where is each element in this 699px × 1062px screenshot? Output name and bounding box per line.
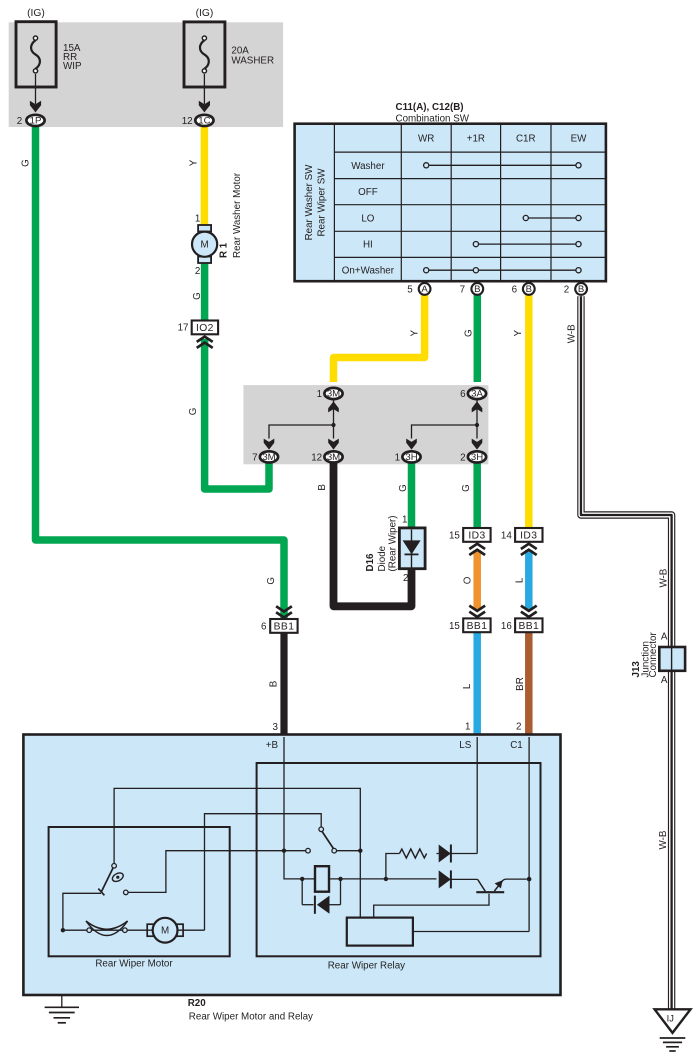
svg-text:1: 1 [195,213,200,224]
svg-text:ID3: ID3 [520,531,537,542]
svg-text:+B: +B [266,740,279,751]
svg-text:C1: C1 [510,740,523,751]
svg-text:WR: WR [418,134,434,145]
svg-text:3H: 3H [405,452,417,463]
svg-text:12: 12 [311,452,322,463]
svg-text:A: A [421,284,428,295]
svg-text:Y: Y [513,329,524,336]
svg-text:3: 3 [272,722,278,733]
svg-text:L: L [462,683,473,689]
svg-text:6: 6 [512,284,518,295]
svg-text:Rear Wiper SW: Rear Wiper SW [317,168,328,237]
svg-text:1: 1 [465,722,470,733]
svg-text:Washer: Washer [351,161,385,172]
svg-text:(IG): (IG) [27,8,45,19]
svg-text:M: M [201,240,209,251]
svg-text:On+Washer: On+Washer [342,266,395,277]
svg-text:W-B: W-B [659,568,670,587]
svg-text:EW: EW [571,134,588,145]
svg-text:BR: BR [515,677,526,691]
svg-text:B: B [578,284,584,295]
svg-text:C1R: C1R [516,134,536,145]
svg-text:Y: Y [410,329,421,336]
svg-text:3A: 3A [471,389,483,400]
svg-text:(Rear Wiper): (Rear Wiper) [388,515,399,571]
svg-text:R 1: R 1 [218,242,229,258]
svg-text:G: G [188,408,199,416]
svg-text:16: 16 [501,621,512,632]
svg-text:(IG): (IG) [196,8,214,19]
svg-text:W-B: W-B [658,830,669,849]
svg-text:2: 2 [17,116,22,127]
svg-text:HI: HI [363,240,373,251]
svg-text:2: 2 [564,284,569,295]
svg-text:6: 6 [261,622,267,633]
svg-text:ID3: ID3 [468,531,485,542]
svg-text:O: O [462,576,473,584]
svg-text:3H: 3H [471,452,483,463]
svg-text:A: A [661,675,668,686]
svg-text:6: 6 [460,389,466,400]
svg-text:Rear Washer SW: Rear Washer SW [304,164,315,241]
svg-text:B: B [269,680,280,687]
svg-text:14: 14 [501,531,512,542]
svg-text:2: 2 [516,722,521,733]
svg-text:WIP: WIP [63,61,82,72]
svg-text:+1R: +1R [467,134,485,145]
svg-text:B: B [474,284,480,295]
svg-text:IO2: IO2 [196,323,214,334]
svg-text:Y: Y [189,159,200,166]
svg-text:R20: R20 [188,998,207,1009]
svg-text:A: A [661,631,668,642]
svg-text:B: B [317,484,328,491]
svg-text:Rear Wiper Motor and Relay: Rear Wiper Motor and Relay [189,1011,313,1022]
svg-text:G: G [20,159,31,167]
svg-text:G: G [461,484,472,492]
svg-text:OFF: OFF [358,187,378,198]
svg-text:Combination SW: Combination SW [396,113,470,124]
svg-text:BB1: BB1 [274,622,295,633]
svg-text:L: L [515,577,526,583]
svg-text:2: 2 [403,573,408,584]
svg-text:2: 2 [195,266,200,277]
svg-text:G: G [192,292,203,300]
svg-text:15: 15 [449,621,460,632]
svg-text:IJ: IJ [667,1014,674,1024]
svg-text:J13: J13 [631,661,642,678]
svg-text:D16: D16 [365,553,376,572]
svg-text:3M: 3M [327,452,340,463]
svg-text:LO: LO [361,214,374,225]
svg-text:7: 7 [460,284,465,295]
svg-text:Connector: Connector [648,632,659,678]
svg-text:2: 2 [460,452,465,463]
svg-text:1P: 1P [30,116,42,127]
svg-text:G: G [398,484,409,492]
svg-text:17: 17 [178,322,189,333]
svg-text:BB1: BB1 [467,621,488,632]
svg-text:WASHER: WASHER [231,55,274,66]
svg-text:B: B [526,284,532,295]
svg-text:1: 1 [395,452,400,463]
svg-text:Diode: Diode [377,545,388,571]
svg-text:1C: 1C [198,116,210,127]
svg-text:LS: LS [459,740,471,751]
svg-text:Rear Wiper Relay: Rear Wiper Relay [328,960,405,971]
svg-text:7: 7 [252,452,257,463]
svg-text:G: G [266,577,277,585]
svg-text:G: G [464,329,475,337]
svg-text:M: M [161,926,169,937]
svg-text:1: 1 [402,514,407,525]
svg-text:C11(A), C12(B): C11(A), C12(B) [396,102,464,113]
svg-text:12: 12 [182,116,193,127]
svg-text:5: 5 [407,284,413,295]
svg-text:Rear Washer Motor: Rear Washer Motor [232,172,243,258]
svg-text:3M: 3M [327,389,340,400]
svg-text:1: 1 [317,389,322,400]
svg-text:Rear Wiper Motor: Rear Wiper Motor [95,958,173,969]
svg-text:BB1: BB1 [518,621,539,632]
svg-text:W-B: W-B [567,324,578,343]
svg-text:3M: 3M [262,452,275,463]
svg-text:15: 15 [449,531,460,542]
